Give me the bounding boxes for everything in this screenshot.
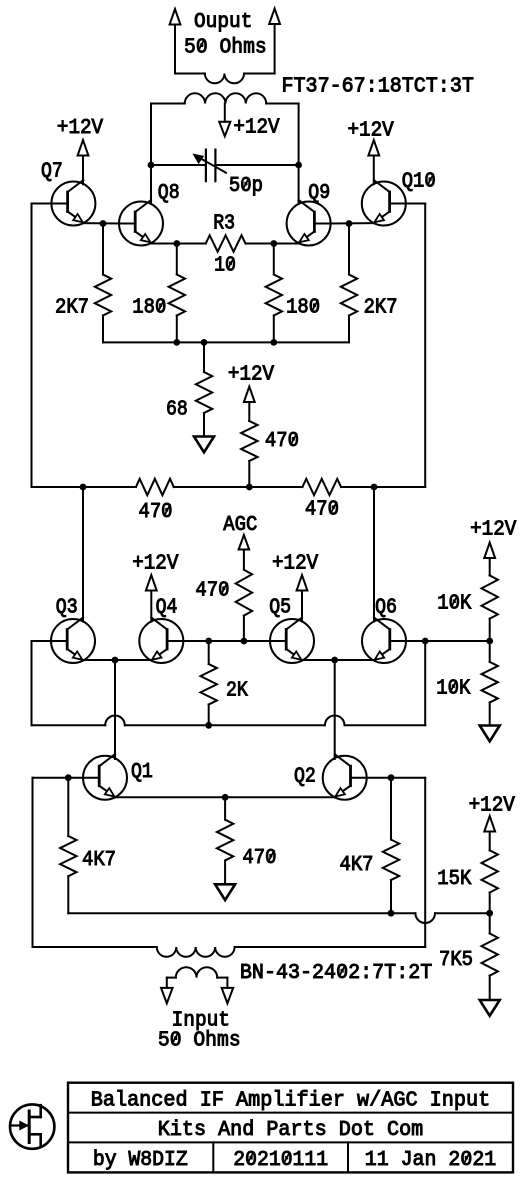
svg-text:BN-43-2402:7T:2T: BN-43-2402:7T:2T	[240, 961, 432, 985]
svg-text:10K: 10K	[436, 677, 470, 701]
svg-text:2K: 2K	[226, 679, 248, 703]
svg-text:180: 180	[132, 296, 166, 320]
svg-text:50p: 50p	[229, 174, 263, 198]
svg-text:Q2: Q2	[294, 765, 316, 789]
svg-text:R3: R3	[213, 212, 235, 236]
svg-text:470: 470	[195, 579, 229, 603]
svg-text:180: 180	[286, 296, 320, 320]
svg-text:FT37-67:18TCT:3T: FT37-67:18TCT:3T	[282, 75, 474, 99]
svg-text:15K: 15K	[437, 867, 471, 891]
svg-text:Q3: Q3	[56, 596, 78, 620]
svg-text:470: 470	[305, 498, 339, 522]
svg-text:Q5: Q5	[269, 596, 291, 620]
svg-text:10: 10	[214, 254, 236, 278]
svg-text:Q6: Q6	[375, 596, 397, 620]
svg-text:Ouput: Ouput	[194, 10, 252, 34]
svg-text:+12V: +12V	[272, 552, 318, 576]
svg-text:Balanced IF Amplifier w/AGC In: Balanced IF Amplifier w/AGC Input	[91, 1088, 490, 1112]
svg-text:50 Ohms: 50 Ohms	[184, 36, 267, 60]
svg-text:+12V: +12V	[469, 794, 515, 818]
svg-text:+12V: +12V	[348, 119, 394, 143]
svg-text:4K7: 4K7	[340, 853, 374, 877]
svg-text:Q8: Q8	[158, 181, 180, 205]
svg-text:7K5: 7K5	[439, 948, 473, 972]
svg-text:10K: 10K	[437, 592, 471, 616]
svg-text:by W8DIZ: by W8DIZ	[93, 1148, 188, 1172]
svg-text:Q4: Q4	[156, 596, 178, 620]
svg-text:Q9: Q9	[308, 181, 330, 205]
svg-text:+12V: +12V	[233, 116, 279, 140]
svg-text:Q10: Q10	[402, 170, 436, 194]
svg-text:+12V: +12V	[470, 518, 516, 542]
svg-text:2K7: 2K7	[364, 296, 398, 320]
svg-text:Q1: Q1	[131, 760, 153, 784]
svg-text:470: 470	[265, 429, 299, 453]
svg-text:11 Jan 2021: 11 Jan 2021	[365, 1148, 496, 1172]
svg-text:+12V: +12V	[132, 552, 178, 576]
svg-text:+12V: +12V	[228, 363, 274, 387]
svg-text:470: 470	[139, 500, 173, 524]
svg-text:2K7: 2K7	[55, 296, 89, 320]
svg-text:4K7: 4K7	[82, 848, 116, 872]
svg-text:Kits And Parts Dot Com: Kits And Parts Dot Com	[158, 1118, 423, 1142]
svg-text:Q7: Q7	[41, 160, 63, 184]
svg-text:+12V: +12V	[57, 116, 103, 140]
svg-text:470: 470	[242, 846, 276, 870]
svg-text:AGC: AGC	[223, 513, 257, 537]
svg-text:50 Ohms: 50 Ohms	[158, 1029, 241, 1053]
svg-text:68: 68	[166, 398, 188, 422]
svg-text:20210111: 20210111	[233, 1148, 328, 1172]
